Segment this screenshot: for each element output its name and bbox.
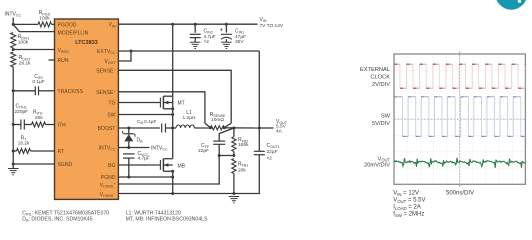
- svg-text:100k: 100k: [39, 15, 50, 21]
- svg-text:CITH1: CITH1: [16, 104, 27, 110]
- wire COUT1 top lead already part of VOUT drop: [258, 128, 260, 151]
- node feedback node CFF: [218, 154, 221, 157]
- wire SENSE+ diagonal to RSENSE: [205, 123, 211, 127]
- wire ground bus left: [12, 67, 14, 168]
- capacitor CFF: [213, 141, 225, 144]
- wire SW vertical MT source to MB drain: [172, 96, 174, 159]
- label RFB1 value 20k: [238, 167, 246, 173]
- label COUT1 value 22uF: [267, 149, 278, 155]
- wire CITH1 to RITH: [24, 124, 31, 126]
- svg-text:5V/DIV: 5V/DIV: [372, 121, 390, 127]
- svg-text:20mV/DIV: 20mV/DIV: [364, 163, 390, 169]
- label RITH value 20k: [35, 115, 43, 121]
- pin BG: [108, 163, 115, 169]
- label RFB1: [238, 162, 248, 168]
- wire VRNG: [13, 49, 54, 51]
- wire feedback to VOSNS+: [118, 156, 219, 185]
- inductor L1: [176, 125, 194, 128]
- capacitor CIN1 polarized: [221, 34, 232, 39]
- svg-text:VIN: VIN: [260, 17, 267, 23]
- pin ITH: [58, 122, 67, 128]
- pin VOSNS+: [100, 182, 116, 189]
- label CSS value 0.1uF: [32, 79, 44, 85]
- node RSENSE left junction: [209, 126, 212, 129]
- svg-text:BG: BG: [108, 163, 115, 169]
- transistor MT top MOSFET: [160, 96, 172, 109]
- label RPGD: [39, 10, 51, 16]
- label L1: [186, 110, 192, 116]
- wire PGND pin: [118, 176, 172, 178]
- svg-text:PGOOD: PGOOD: [58, 22, 77, 28]
- pin SW: [107, 113, 115, 119]
- wire VOUT pin up to EXTVCC: [118, 51, 131, 61]
- wire CITH1 left lead: [13, 124, 21, 126]
- label RT value 18.2k: [18, 140, 30, 146]
- label CVCC value 4.7uF: [138, 156, 150, 162]
- svg-text:COUT1: COUT1: [267, 143, 280, 149]
- svg-text:2V/DIV: 2V/DIV: [372, 82, 390, 88]
- label CB value: [137, 119, 157, 125]
- capacitor CB: [162, 124, 166, 133]
- svg-text:CIN2: CIN2: [204, 29, 213, 35]
- pin EXTVCC: [97, 49, 116, 55]
- scope caption VOUT: [393, 198, 425, 204]
- wire INTVCC net stub: [129, 147, 150, 149]
- ground symbol left bus: [8, 169, 19, 175]
- node PGND to MB source junction: [171, 176, 174, 179]
- label CFF: [201, 143, 210, 149]
- label CIN2 qty x2: [204, 39, 210, 45]
- pin VOUT: [104, 59, 116, 65]
- svg-text:MT: MT: [178, 101, 185, 107]
- svg-text:RDIV1: RDIV1: [18, 34, 30, 40]
- label MT: [178, 101, 185, 107]
- label L1 value 1.2uH: [183, 115, 196, 121]
- svg-text:RSENSE: RSENSE: [210, 112, 226, 118]
- note MT MB vendor: [126, 217, 208, 223]
- scope label 5V/DIV: [372, 121, 390, 127]
- net label INTVCC top left: [5, 12, 22, 18]
- resistor RPGD: [38, 22, 52, 27]
- svg-text:VIN = 12V: VIN = 12V: [393, 191, 419, 197]
- resistor RSENSE: [210, 126, 224, 130]
- svg-text:35V: 35V: [235, 39, 244, 45]
- wire SW pin: [118, 114, 172, 116]
- scope caption timebase 500ns/DIV: [446, 191, 474, 197]
- label VOUT voltage 5.5V: [276, 124, 287, 130]
- wire CB right lead: [166, 127, 173, 129]
- label CITH1 value 220pF: [15, 109, 29, 115]
- svg-text:SW: SW: [381, 113, 391, 119]
- resistor RT: [17, 149, 31, 154]
- ground symbol output: [229, 197, 240, 203]
- svg-text:100k: 100k: [18, 39, 29, 45]
- node SW pin junction: [171, 113, 174, 116]
- decorative teal circle: [495, 0, 528, 10]
- pin BOOST: [98, 126, 116, 132]
- wire BG to MB gate: [118, 164, 160, 166]
- svg-text:TRACK/SS: TRACK/SS: [58, 89, 84, 95]
- resistor RITH: [32, 122, 46, 127]
- label CIN2: [204, 29, 213, 35]
- node CIN1 junction: [225, 23, 228, 26]
- svg-text:L1: WURTH 744313120: L1: WURTH 744313120: [126, 210, 181, 216]
- ground symbol CIN1: [221, 42, 232, 48]
- capacitor CVCC: [123, 154, 135, 158]
- svg-text:165k: 165k: [238, 142, 249, 148]
- node DB cathode junction: [127, 127, 130, 130]
- wire TG to MT gate: [118, 102, 160, 104]
- resistor RFB1: [232, 159, 236, 174]
- scope label 2V/DIV: [372, 82, 390, 88]
- svg-text:ITH: ITH: [58, 122, 67, 128]
- node CB to SW junction: [171, 127, 174, 130]
- node VOUT junction: [258, 127, 261, 130]
- wire SENSE- diagonal to RSENSE: [224, 123, 231, 127]
- scope trace VOUT ripple green: [394, 158, 525, 168]
- svg-text:20k: 20k: [35, 115, 43, 121]
- pin VRNG: [58, 48, 70, 54]
- wire RFB2 top lead: [233, 128, 235, 137]
- svg-text:RT: RT: [58, 149, 65, 155]
- wire CFF bottom lead: [218, 144, 220, 155]
- wire SENSE- line: [118, 70, 231, 123]
- label RPGD value 100k: [39, 15, 50, 21]
- pin SENSE-: [96, 68, 115, 75]
- scope trace external clock red: [394, 64, 525, 88]
- op-amp U1 LTC3833 controller IC body: [55, 19, 119, 199]
- svg-text:CIN1: CIN1: [235, 29, 244, 35]
- svg-text:4.7µF: 4.7µF: [204, 34, 216, 40]
- label RSENSE: [210, 112, 226, 118]
- label VOUT node: [276, 119, 288, 125]
- capacitor CIN2: [190, 34, 201, 37]
- svg-text:10mΩ: 10mΩ: [211, 117, 224, 123]
- svg-text:BOOST: BOOST: [98, 126, 116, 132]
- label COUT1: [267, 143, 280, 149]
- node RSENSE right junction: [223, 126, 226, 129]
- pin VIN: [108, 22, 115, 28]
- svg-text:7V TO 14V: 7V TO 14V: [260, 23, 284, 29]
- wire SENSE+ line: [118, 92, 204, 124]
- label VIN range 7V TO 14V: [260, 23, 284, 29]
- capacitor COUT1: [254, 151, 265, 154]
- scope center vertical line: [459, 54, 461, 184]
- capacitor CFF diagonal top lead: [219, 128, 234, 141]
- wire RFB2 bottom lead: [233, 152, 235, 156]
- label RITH: [33, 110, 43, 116]
- wire VIN rail: [118, 23, 257, 25]
- pin INTVCC: [99, 146, 116, 152]
- label CIN1: [235, 29, 244, 35]
- svg-text:RUN: RUN: [58, 58, 69, 64]
- wire CSS left lead: [13, 90, 35, 92]
- label RT: [21, 135, 28, 141]
- node CIN2 junction: [194, 23, 197, 26]
- wire CIN2 top lead: [194, 24, 196, 33]
- label CIN1 rating 35V: [235, 39, 244, 45]
- pin TRACK/SS: [58, 89, 84, 95]
- scope caption ILOAD: [393, 205, 421, 211]
- pin PGOOD: [58, 22, 77, 28]
- svg-text:0.1µF: 0.1µF: [32, 79, 44, 85]
- svg-text:VOUT = 5.5V: VOUT = 5.5V: [393, 198, 425, 204]
- svg-text:500ns/DIV: 500ns/DIV: [446, 191, 474, 197]
- svg-text:CB 0.1µF: CB 0.1µF: [137, 119, 157, 125]
- node EXTVCC-VOUT tie: [130, 50, 133, 53]
- svg-text:DB: DB: [137, 138, 144, 144]
- label RDIV1 value 100k: [18, 39, 29, 45]
- resistor RDIV1: [11, 33, 16, 48]
- pin PGND: [101, 175, 116, 181]
- label CIN1 value 47uF: [235, 34, 246, 40]
- node RFB2 top junction: [232, 127, 235, 130]
- node ground rail MB junction: [171, 192, 174, 195]
- svg-text:220pF: 220pF: [15, 109, 29, 115]
- svg-text:DB: DIODES, INC. SDM10K45: DB: DIODES, INC. SDM10K45: [22, 217, 92, 223]
- label MB: [178, 163, 186, 169]
- node VIN rail junction to MT drain: [171, 23, 174, 26]
- wire CIN1 bottom lead: [225, 39, 227, 42]
- wire RT left lead: [13, 150, 16, 152]
- svg-text:SGND: SGND: [58, 162, 73, 168]
- svg-text:20k: 20k: [238, 167, 246, 173]
- scope label SW: [381, 113, 391, 119]
- node feedback node RFB: [232, 154, 235, 157]
- pin SENSE+: [96, 89, 115, 96]
- svg-text:+: +: [220, 27, 223, 33]
- note DB vendor: [22, 217, 92, 223]
- wire VOSNS- ground rail: [118, 155, 259, 194]
- svg-text:TG: TG: [108, 100, 115, 106]
- label RDIV1: [18, 34, 30, 40]
- svg-text:SENSE+: SENSE+: [96, 89, 115, 96]
- svg-text:4A: 4A: [276, 128, 283, 134]
- scope frame: [394, 54, 525, 184]
- scope label CLOCK: [370, 75, 390, 81]
- resistor RFB2: [232, 137, 236, 152]
- wire RUN stub: [49, 59, 55, 61]
- scope center axis ticks: [459, 51, 461, 187]
- scope caption fSW: [393, 212, 424, 218]
- node RT junction on ground bus: [12, 150, 15, 153]
- wire VOUT vertical drop: [258, 51, 260, 128]
- svg-text:22pF: 22pF: [198, 148, 209, 154]
- node MB source-body tie: [171, 170, 174, 173]
- label CIN2 value 4.7uF: [204, 34, 216, 40]
- svg-text:47µF: 47µF: [235, 34, 246, 40]
- pin TG: [108, 100, 115, 106]
- svg-text:CLOCK: CLOCK: [370, 75, 390, 81]
- U1 part number label LTC3833: [75, 40, 98, 46]
- node CITH1 junction on ground bus: [12, 123, 15, 126]
- label RFB2 value 165k: [238, 142, 249, 148]
- wire CIN1 top lead: [225, 24, 227, 32]
- label DB: [137, 138, 144, 144]
- scope label EXTERNAL: [360, 67, 390, 73]
- wire RT to RT pin: [31, 150, 55, 152]
- node CVCC to PGND junction: [127, 176, 130, 179]
- node SGND junction: [12, 163, 15, 166]
- svg-text:×2: ×2: [204, 39, 210, 45]
- scope label VOUT: [378, 156, 391, 162]
- svg-text:INTVCC: INTVCC: [5, 12, 22, 18]
- svg-text:22µF: 22µF: [267, 149, 278, 155]
- wire EXTVCC to VOUT right rail: [118, 50, 259, 52]
- svg-text:18.2k: 18.2k: [18, 140, 30, 146]
- svg-text:RPGD: RPGD: [39, 10, 51, 16]
- node INTVCC junction: [12, 23, 15, 26]
- svg-text:4.7µF: 4.7µF: [138, 156, 150, 162]
- svg-text:MODE/PLLIN: MODE/PLLIN: [58, 30, 89, 36]
- wire SGND: [13, 163, 54, 165]
- pin SGND: [58, 162, 73, 168]
- pin MODE/PLLIN: [58, 30, 89, 36]
- capacitor CSS: [35, 86, 38, 95]
- svg-text:26.1k: 26.1k: [19, 60, 31, 66]
- pin RT: [58, 149, 65, 155]
- label VOUT current 4A: [276, 128, 283, 134]
- svg-text:RITH: RITH: [33, 110, 43, 116]
- svg-text:RFB1: RFB1: [238, 162, 248, 168]
- wire INTVCC stub down: [12, 18, 14, 25]
- wire RPGD to PGOOD pin: [52, 23, 55, 25]
- svg-text:RDIV2: RDIV2: [19, 55, 31, 61]
- wire MB source down: [172, 171, 174, 193]
- wire RFB1 bottom lead: [233, 174, 235, 194]
- transistor MB bottom MOSFET: [160, 159, 172, 172]
- svg-text:×2: ×2: [267, 155, 273, 161]
- svg-text:fSW = 2MHz: fSW = 2MHz: [393, 212, 424, 218]
- node MT source-body tie: [171, 107, 174, 110]
- wire MODE/PLLIN diagonal: [13, 24, 54, 31]
- label COUT1 qty x2: [267, 155, 273, 161]
- wire VIN dropline to MT drain: [172, 24, 174, 96]
- pin VOSNS-: [100, 191, 116, 198]
- scope grid dashed lines: [394, 54, 525, 184]
- label CSS: [34, 74, 43, 80]
- label RSENSE value 10mohm: [211, 117, 224, 123]
- svg-text:ILOAD = 2A: ILOAD = 2A: [393, 205, 421, 211]
- label RDIV2: [19, 55, 31, 61]
- wire VOUT stub right: [259, 127, 273, 129]
- label CITH1: [16, 104, 27, 110]
- node ground rail RFB1 junction: [232, 192, 235, 195]
- svg-text:SENSE−: SENSE−: [96, 68, 115, 75]
- resistor RDIV2: [11, 52, 16, 67]
- wire PGOOD to RPGD: [13, 23, 38, 25]
- scope center horizontal line: [394, 118, 525, 120]
- scope label 20mV/DIV: [364, 163, 390, 169]
- note L1 vendor: [126, 210, 181, 216]
- label CVCC: [138, 151, 150, 157]
- node VRNG divider junction: [12, 48, 15, 51]
- svg-text:LTC3833: LTC3833: [75, 40, 98, 46]
- wire RITH to ITH pin: [46, 124, 55, 126]
- wire L1 to RSENSE: [194, 127, 210, 129]
- wire BOOST pin: [118, 127, 159, 129]
- scope caption VIN: [393, 191, 419, 197]
- wire CVCC bottom lead: [128, 158, 130, 177]
- scope trace SW blue: [394, 97, 525, 137]
- node INTVCC junction at CVCC: [127, 146, 130, 149]
- label RFB2: [238, 137, 248, 143]
- node CSS junction on ground bus: [12, 89, 15, 92]
- svg-text:INTVCC: INTVCC: [151, 146, 168, 152]
- net label INTVCC mid: [151, 146, 168, 152]
- svg-text:MT, MB: INFINEON BSC093N04LS: MT, MB: INFINEON BSC093N04LS: [126, 217, 208, 223]
- label CIN1 plus sign: [220, 27, 223, 33]
- svg-text:MB: MB: [178, 163, 186, 169]
- svg-text:EXTERNAL: EXTERNAL: [360, 67, 390, 73]
- wire CSS to TRACK/SS pin: [39, 90, 55, 92]
- wire CIN2 bottom lead: [194, 38, 196, 43]
- wire INTVCC pin to junction: [118, 147, 128, 149]
- capacitor CITH1: [21, 120, 24, 130]
- label CFF value 22pF: [198, 148, 209, 154]
- label RDIV2 value 26.1k: [19, 60, 31, 66]
- svg-text:CSS: CSS: [34, 74, 43, 80]
- ground symbol CIN2: [190, 42, 201, 48]
- svg-text:PGND: PGND: [101, 175, 116, 181]
- label VIN rail: [260, 17, 267, 23]
- svg-text:1.2µH: 1.2µH: [183, 115, 196, 121]
- wire SW to L1: [173, 127, 176, 129]
- pin RUN: [58, 58, 69, 64]
- note CIN1 vendor: [22, 210, 109, 216]
- wire feedback node link: [219, 155, 234, 157]
- wire RSENSE to VOUT node: [224, 127, 259, 129]
- diode DB schottky: [123, 128, 136, 148]
- svg-text:SW: SW: [107, 113, 115, 119]
